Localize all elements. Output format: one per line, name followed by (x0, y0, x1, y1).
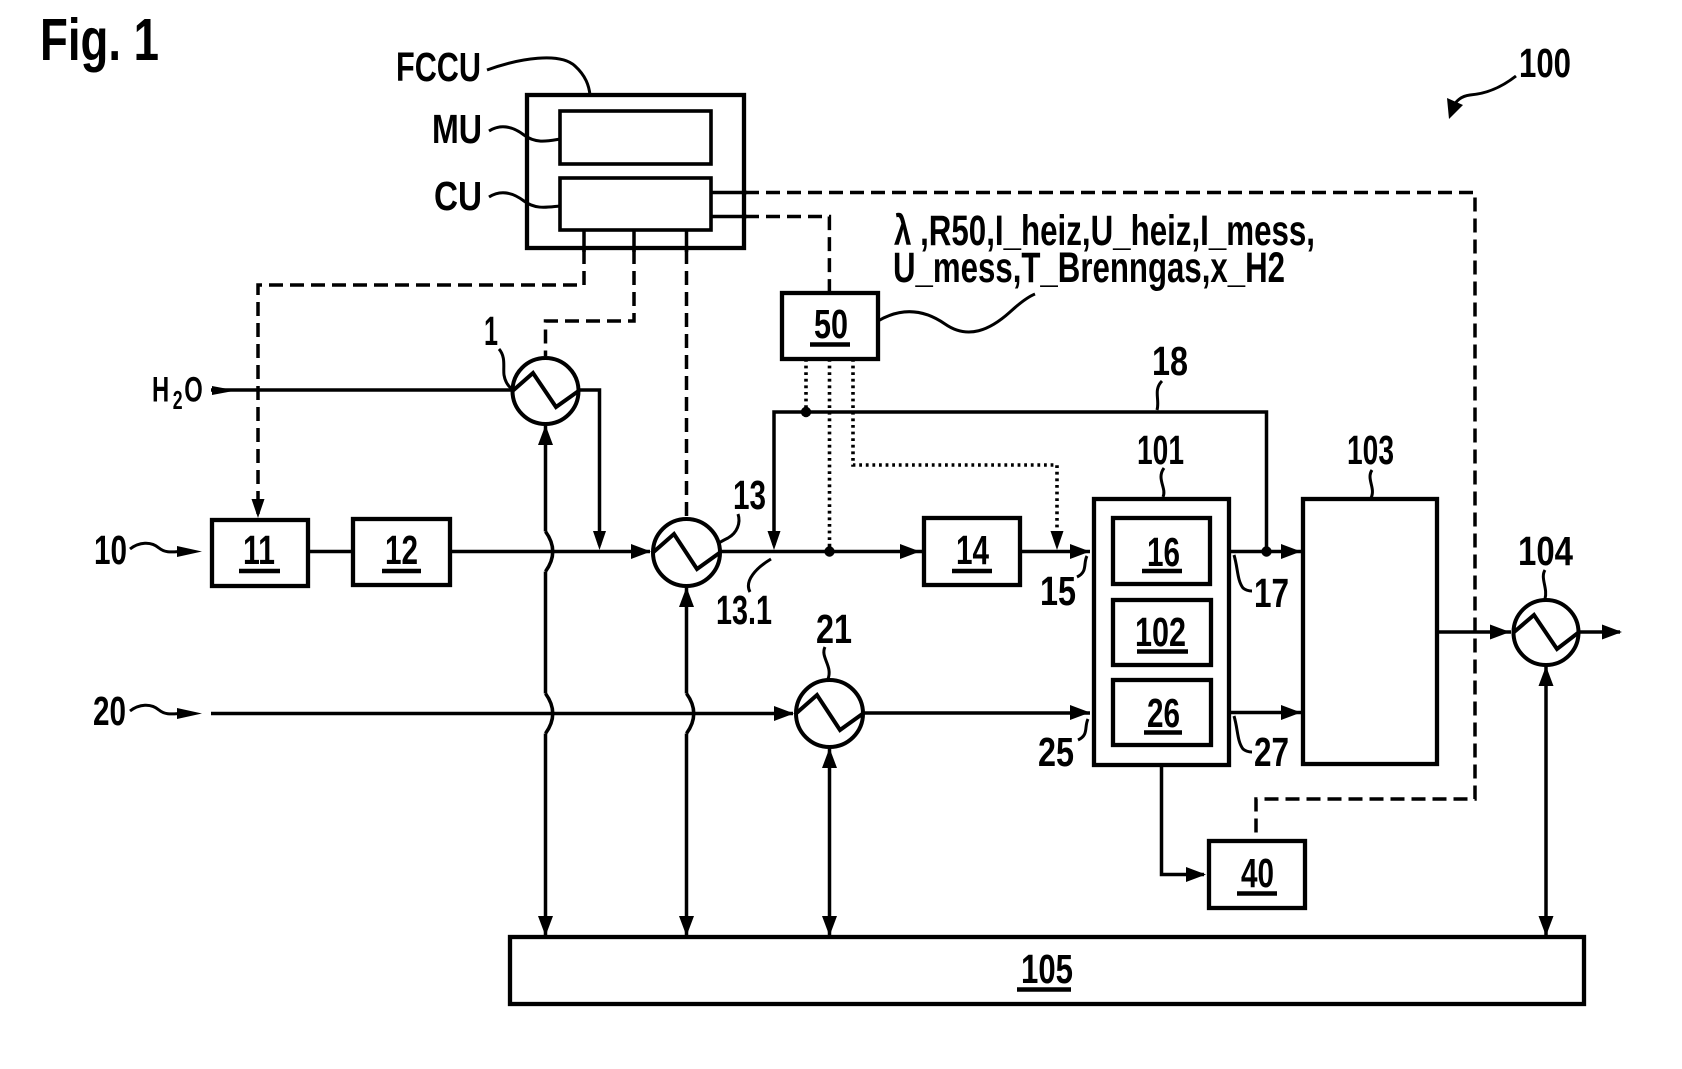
leader 27 (1234, 716, 1252, 752)
box 40 (1209, 841, 1305, 908)
wire vertical 105 to HX1 with jumps (544, 424, 548, 935)
svg-text:O: O (184, 371, 203, 410)
wire 103 to HX 104 (1437, 630, 1511, 634)
leader arrow 100 (1452, 76, 1516, 108)
dotted line 50 to node 15 (853, 359, 1057, 544)
arrow dotted onto main line (1051, 531, 1064, 550)
leader CU (489, 193, 560, 207)
svg-text:101: 101 (1137, 427, 1184, 473)
dashed line CU to HX 13 (685, 250, 689, 517)
leader 13.1 (748, 559, 771, 592)
leader arrow 10 (130, 543, 180, 552)
svg-text:100: 100 (1519, 40, 1571, 86)
box 12 (353, 519, 450, 585)
svg-text:U_mess,T_Brenngas,x_H2: U_mess,T_Brenngas,x_H2 (893, 244, 1285, 292)
box 16 (1113, 518, 1210, 584)
leader from box 50 to signal list (878, 294, 1035, 332)
svg-text:21: 21 (816, 606, 852, 652)
arrow into box 103 lower (1281, 705, 1301, 720)
svg-text:13.1: 13.1 (716, 587, 772, 633)
underline 40 (1237, 891, 1277, 896)
arrow into box 101 node 25 (1070, 705, 1090, 720)
svg-text:20: 20 (93, 688, 126, 734)
underline 26 (1144, 730, 1182, 735)
svg-text:18: 18 (1152, 338, 1188, 384)
junction dot on line 18 (801, 407, 811, 417)
arrow into box 40 (1186, 867, 1206, 882)
svg-text:1: 1 (484, 308, 498, 354)
arrow into HX 13 (631, 544, 651, 559)
FCCU outer box (527, 95, 744, 248)
arrow system outlet (1602, 625, 1622, 640)
svg-text:102: 102 (1135, 609, 1186, 655)
wire HX13 to box 14 (720, 550, 922, 554)
wire H2O feed (211, 388, 513, 392)
heat exchanger 13 (653, 519, 720, 586)
svg-text:26: 26 (1147, 690, 1180, 736)
dashed line CU to box 50 (745, 217, 829, 292)
underline 14 (952, 569, 992, 574)
underline 105 (1017, 987, 1071, 992)
leader 101 (1161, 468, 1164, 497)
underline 50 (810, 342, 850, 347)
leader 104 (1543, 570, 1545, 599)
box 14 (924, 518, 1020, 585)
leader 21 (824, 647, 829, 679)
box 101 (1094, 499, 1229, 765)
leader 18 (1157, 381, 1162, 410)
svg-text:50: 50 (814, 301, 848, 347)
dashed line CU to HX 1 (546, 250, 635, 356)
dashed line CU to box 40 (745, 193, 1475, 840)
arrow down into 105 right (1539, 916, 1554, 936)
leader 103 (1370, 470, 1372, 498)
svg-text:12: 12 (385, 527, 418, 573)
arrow into box 14 (900, 544, 920, 559)
heat exchanger 1 (513, 358, 579, 424)
box 50 (782, 293, 878, 359)
wire 101 bottom to box 40 (1162, 765, 1205, 875)
underline 102 (1137, 649, 1188, 654)
arrow down into 105 mid (679, 916, 694, 936)
box 26 (1113, 680, 1211, 745)
svg-text:27: 27 (1254, 729, 1289, 775)
leader 25 (1078, 719, 1088, 740)
svg-text:10: 10 (94, 527, 127, 573)
box 105 (510, 937, 1584, 1004)
leader FCCU (487, 58, 590, 95)
svg-text:104: 104 (1518, 528, 1573, 574)
junction dot on main line (824, 546, 834, 556)
box CU (560, 178, 711, 230)
leader 17 (1234, 555, 1252, 591)
junction dot line 18 (1261, 546, 1271, 556)
wire HX104 outlet (1579, 630, 1621, 634)
svg-text:H: H (152, 371, 169, 410)
underline 12 (382, 569, 421, 574)
arrow into box 11 top (252, 499, 265, 518)
svg-text:13: 13 (733, 472, 766, 518)
jump over line 20 (546, 694, 553, 734)
underline 16 (1142, 569, 1182, 574)
arrow into box 103 (1281, 544, 1301, 559)
arrow HX1 outlet onto main line (593, 531, 606, 550)
wire HX1 outlet down to main line (579, 390, 600, 545)
svg-text:FCCU: FCCU (396, 44, 481, 90)
svg-text:25: 25 (1038, 729, 1074, 775)
arrow into box 101 node 15 (1070, 544, 1090, 559)
jump over line 20 (687, 694, 694, 734)
svg-text:40: 40 (1241, 850, 1274, 896)
wire HX21 to box 101 (863, 711, 1090, 715)
wire 11 to 12 (308, 550, 353, 554)
wire 16 to box 103 node 17 (1229, 550, 1301, 554)
box 103 (1303, 499, 1437, 764)
svg-text:2: 2 (173, 386, 183, 415)
svg-text:CU: CU (434, 173, 482, 219)
line 18 recirculation (774, 412, 1267, 552)
leader 13 (719, 514, 739, 543)
svg-text:105: 105 (1021, 946, 1073, 992)
box 11 (212, 520, 308, 586)
leader 15 (1077, 556, 1087, 577)
box 102 (1113, 600, 1211, 665)
dotted line 50 to main line (828, 359, 832, 548)
wire 14 to box 101 (1020, 550, 1090, 554)
svg-text:11: 11 (243, 527, 275, 573)
arrow down into 105 left (538, 916, 553, 936)
wire 20 line to HX 21 (211, 712, 793, 716)
arrow up into HX104 (1539, 666, 1554, 686)
arrow up into HX1 (538, 425, 553, 445)
wire vertical 105 to HX13 with jump (685, 587, 689, 935)
wire vertical 105 to HX21 (828, 748, 832, 935)
underline 11 (239, 569, 280, 574)
wire 26 to box 103 node 27 (1229, 711, 1301, 715)
svg-text:15: 15 (1040, 568, 1076, 614)
svg-text:MU: MU (432, 106, 482, 152)
wire 12 to HX 13 (450, 550, 650, 554)
heat exchanger 104 (1514, 600, 1579, 665)
arrow H2O (212, 386, 236, 395)
leader 1 (499, 349, 512, 389)
arrow up into HX13 (679, 587, 694, 607)
arrow into HX 104 (1490, 625, 1510, 640)
box MU (560, 111, 711, 164)
arrow line 18 onto main line (768, 531, 781, 550)
leader MU (489, 127, 560, 141)
wire vertical 105 to HX104 (1544, 666, 1548, 935)
svg-text:16: 16 (1147, 529, 1180, 575)
leader arrow 20 (130, 705, 180, 714)
arrow down into 105 at HX21 (822, 916, 837, 936)
svg-text:17: 17 (1254, 570, 1289, 616)
label H2O (152, 371, 203, 415)
svg-text:Fig. 1: Fig. 1 (40, 7, 159, 73)
svg-text:14: 14 (956, 527, 989, 573)
svg-text:103: 103 (1347, 427, 1394, 473)
jump over main line (546, 532, 553, 572)
dashed line CU to box 11 (258, 250, 584, 514)
dotted line 50 to line 18 (804, 359, 808, 409)
arrow into HX 21 (774, 706, 794, 721)
heat exchanger 21 (796, 680, 863, 747)
solid stubs from CU box bottom and right edge (584, 193, 747, 253)
arrow up into HX21 (822, 748, 837, 768)
